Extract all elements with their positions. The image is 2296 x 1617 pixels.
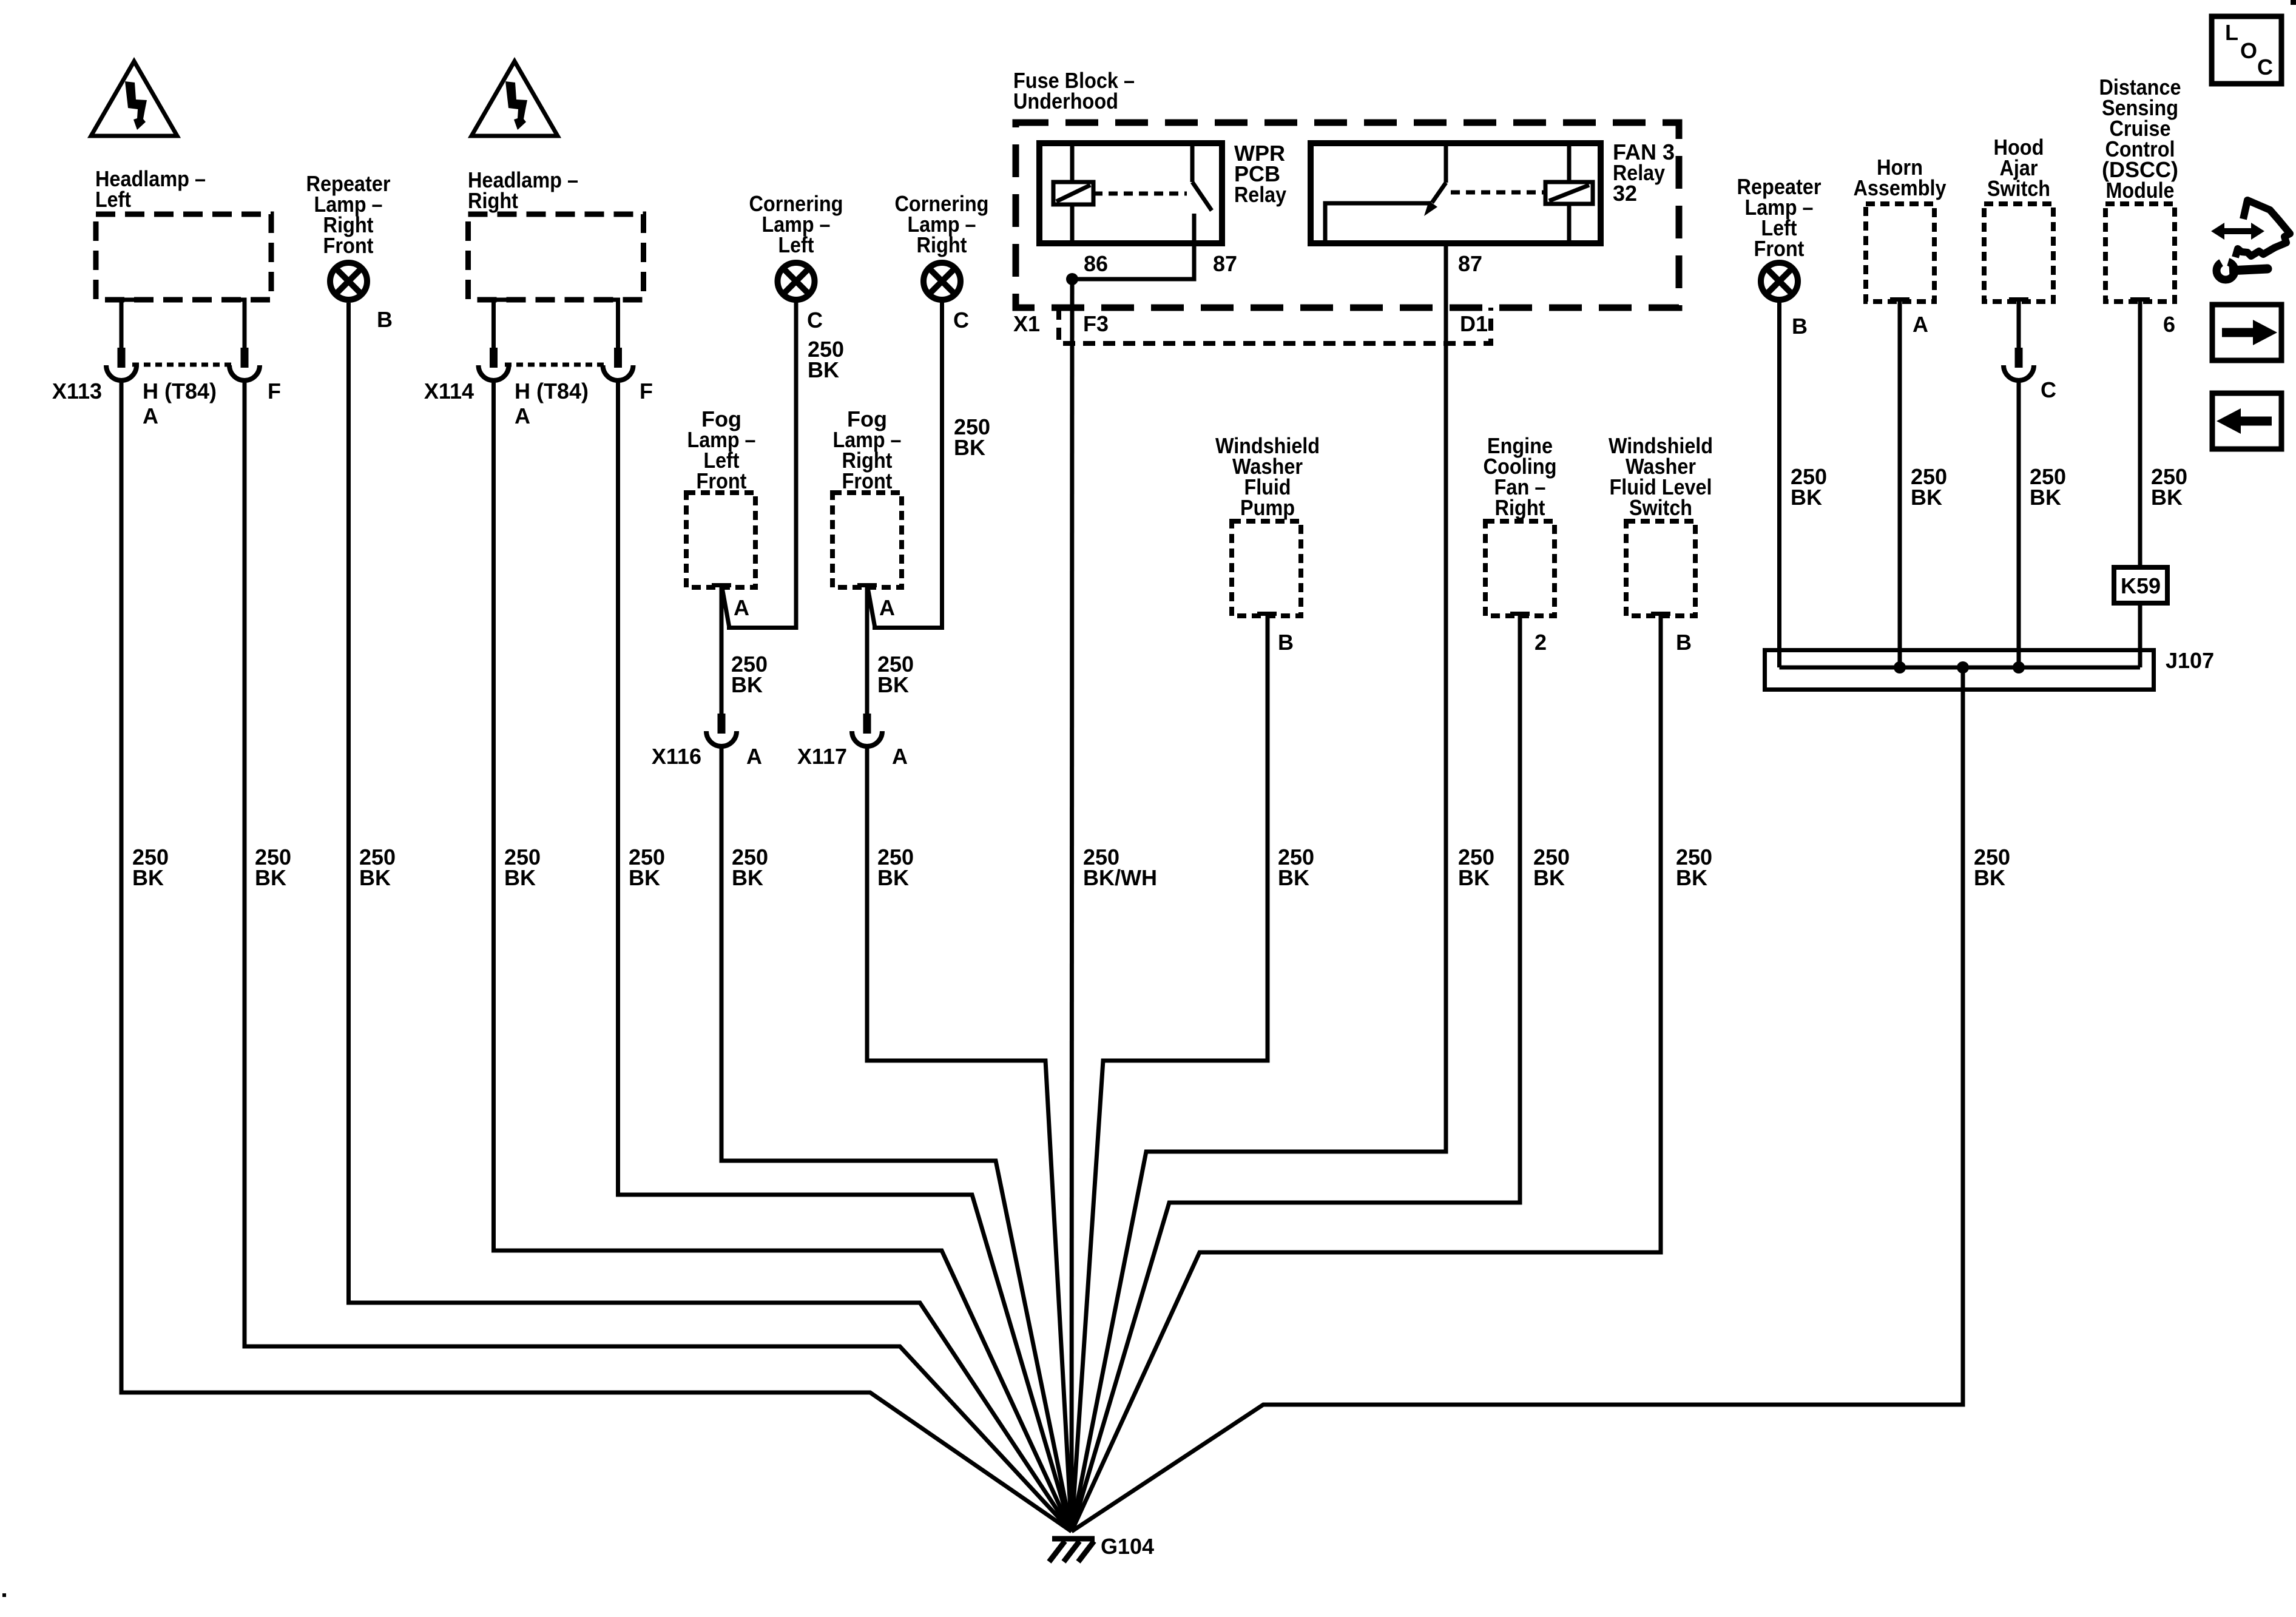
connector X114 terminal H [479, 348, 509, 380]
FAN3 coil lower wire [1567, 204, 1572, 243]
connector X113 terminal F [229, 348, 260, 380]
X113 in-line dotted link [132, 363, 234, 367]
junction dot (hood ajar on J107) [2013, 661, 2025, 673]
svg-text:Left: Left [778, 232, 814, 257]
svg-text:BK: BK [877, 672, 909, 697]
fog lamp left front label [687, 407, 756, 493]
ground G104 symbol [1049, 1539, 1095, 1562]
headlamp left pin H stub [121, 300, 141, 348]
value 250 BK at x=2527 [1533, 845, 1570, 890]
svg-text:87: 87 [1458, 251, 1482, 276]
junction dot 86/F3 [1066, 273, 1078, 285]
FAN3 switch blade [1432, 183, 1446, 203]
wire main F3 250 BK/WH to ground [1072, 279, 1072, 1531]
svg-text:H (T84): H (T84) [143, 379, 217, 403]
svg-text:Front: Front [323, 233, 374, 258]
hood ajar switch label [1987, 135, 2050, 201]
value 250 BK (cornering left) [808, 337, 844, 382]
wire repeater left B to J107 [1777, 300, 1781, 667]
wire cornering right C down and left to fog right [873, 300, 942, 628]
svg-text:BK: BK [877, 865, 909, 890]
WPR coil terminal wire [1070, 143, 1075, 182]
value 250 BK at x=2403 [1458, 845, 1494, 890]
svg-text:Underhood: Underhood [1013, 89, 1118, 113]
junction dot (J107 drop) [1957, 661, 1969, 673]
fog lamp right pin stub [857, 583, 877, 587]
value 250 BK at x=2106 [1278, 845, 1314, 890]
cornering lamp left label [749, 191, 843, 257]
FAN3 switch pivot wire [1444, 143, 1448, 183]
wire WPR 87 to F3 junction [1072, 243, 1194, 279]
wire repeater right front B ground wire [349, 303, 1072, 1531]
svg-text:D1: D1 [1460, 311, 1488, 336]
value 250 BK (horn) [1911, 464, 1947, 510]
svg-text:BK: BK [629, 865, 660, 890]
left arrow box [2212, 393, 2281, 449]
svg-text:BK: BK [1676, 865, 1707, 890]
wire fog right pin to X117 [865, 586, 869, 714]
WPR 87 terminal wire [1192, 214, 1197, 243]
svg-text:BK: BK [1791, 485, 1822, 510]
connector X116 [706, 714, 737, 746]
svg-text:86: 86 [1084, 251, 1108, 276]
fog lamp right front label [833, 407, 902, 493]
fog lamp right front box [832, 493, 902, 587]
warning triangle (headlamp left) [91, 61, 177, 136]
windshield washer fluid pump label [1215, 433, 1320, 520]
headlamp left pin F stub [225, 300, 245, 348]
FAN3 NC L-wire [1325, 203, 1431, 243]
fog lamp left pin stub [712, 583, 731, 587]
svg-text:C: C [2041, 377, 2056, 402]
connector X114 terminal F [603, 348, 633, 380]
connector X1 strip [1059, 308, 1491, 343]
svg-text:B: B [1676, 630, 1692, 655]
svg-text:X117: X117 [797, 744, 847, 769]
svg-text:C: C [953, 308, 969, 333]
wire washer pump B ground wire [1072, 616, 1268, 1531]
wire FAN3 87/D1 ground wire [1072, 243, 1446, 1531]
value 250 BK at x=420 [255, 845, 291, 890]
value 250 BK (hood ajar) [2030, 464, 2066, 510]
value 250 BK (repeater left) [1791, 464, 1827, 510]
svg-text:Front: Front [1754, 236, 1805, 261]
connector X113 terminal H [106, 348, 137, 380]
headlamp right box [468, 214, 644, 300]
FAN3 actuator dashed line [1451, 191, 1545, 195]
svg-text:Switch: Switch [1987, 176, 2050, 201]
value 250 BK (DSCC) [2151, 464, 2187, 510]
svg-text:A: A [746, 744, 762, 769]
wire X116 fog left ground wire [721, 748, 1072, 1531]
horn assembly label [1854, 155, 1947, 200]
connector (hood ajar C) [2004, 348, 2034, 380]
wire X117 fog right ground wire [867, 748, 1072, 1531]
wire K59 to J107 [2138, 603, 2142, 667]
value 250 BK at x=831 [504, 845, 541, 890]
page corner tick [2291, 0, 2296, 5]
windshield washer fluid pump box [1232, 521, 1301, 616]
relay WPR PCB box [1039, 143, 1222, 243]
svg-text:F: F [640, 379, 653, 403]
wire cornering left C down and left to fog left [727, 300, 796, 628]
wire hood ajar to connector [2017, 300, 2021, 348]
svg-text:Pump: Pump [1240, 495, 1295, 520]
wire X114 F ground wire [618, 382, 1072, 1531]
FAN3 coil [1545, 182, 1593, 204]
horn pin stub [1890, 297, 1909, 302]
svg-text:A: A [515, 403, 530, 428]
FAN 3 relay label [1613, 140, 1675, 206]
WPR switch pivot wire [1190, 143, 1195, 182]
value 250 BK at x=218 [132, 845, 169, 890]
svg-text:6: 6 [2163, 312, 2175, 337]
svg-text:BK: BK [731, 672, 763, 697]
J107 bus outline [1765, 650, 2154, 690]
value 250 BK (fog left) [731, 652, 768, 697]
value 250 BK at x=1446 [877, 845, 914, 890]
LOC legend box [2212, 16, 2281, 84]
svg-text:BK: BK [1911, 485, 1942, 510]
svg-text:X113: X113 [52, 379, 102, 403]
svg-text:Switch: Switch [1629, 495, 1692, 520]
svg-text:BK: BK [2151, 485, 2183, 510]
windshield washer fluid level switch label [1609, 433, 1713, 520]
headlamp left box [96, 214, 271, 300]
WPR actuator dashed line [1093, 192, 1187, 196]
svg-text:A: A [892, 744, 908, 769]
warning triangle (headlamp right) [471, 61, 558, 136]
WPR relay label [1234, 141, 1286, 207]
svg-text:H (T84): H (T84) [515, 379, 589, 403]
connector X117 [852, 714, 882, 746]
svg-text:Assembly: Assembly [1854, 175, 1947, 200]
svg-text:A: A [1913, 312, 1928, 337]
hood ajar switch box [1984, 204, 2053, 302]
svg-text:K59: K59 [2121, 573, 2161, 598]
wire X114 A ground wire [494, 382, 1072, 1531]
svg-text:C: C [807, 308, 823, 333]
svg-text:B: B [1792, 314, 1808, 339]
wire washer fluid level switch B ground wire [1072, 616, 1661, 1531]
svg-text:Front: Front [842, 468, 893, 493]
wire horn A to J107 [1898, 300, 1902, 667]
wire X113 F ground wire [245, 382, 1072, 1531]
svg-text:BK: BK [132, 865, 164, 890]
value 250 BK at x=1036 [629, 845, 665, 890]
engine fan pin stub [1510, 612, 1530, 616]
level switch pin stub [1651, 612, 1670, 616]
value 250 BK at x=592 [359, 845, 396, 890]
svg-text:L: L [2225, 20, 2238, 45]
fog lamp left front box [686, 493, 755, 587]
svg-text:BK: BK [1974, 865, 2005, 890]
washer fluid level switch box [1626, 521, 1695, 616]
svg-text:BK: BK [1278, 865, 1309, 890]
engine cooling fan right label [1484, 433, 1557, 520]
junction dot (horn on J107) [1894, 661, 1906, 673]
svg-text:O: O [2240, 38, 2257, 63]
svg-text:BK: BK [2030, 485, 2061, 510]
relay FAN 3 box [1311, 143, 1601, 243]
value 250 BK (cornering right) [954, 414, 990, 460]
wire X113 A ground wire [121, 382, 1072, 1531]
J107 bus wire [1780, 666, 2141, 670]
svg-text:Right: Right [468, 188, 518, 213]
washer pump pin stub [1257, 612, 1277, 616]
wire fog left pin branch to cornering left [722, 587, 729, 628]
svg-text:32: 32 [1613, 181, 1637, 206]
svg-text:BK: BK [1458, 865, 1490, 890]
svg-text:X114: X114 [424, 379, 474, 403]
svg-text:A: A [879, 595, 895, 620]
fuse block label [1013, 68, 1135, 113]
hood ajar pin stub [2009, 297, 2028, 302]
svg-text:B: B [1278, 630, 1294, 655]
cornering lamp right symbol [923, 263, 961, 300]
value 250 BK at x=3253 [1974, 845, 2010, 890]
svg-text:Left: Left [95, 187, 131, 212]
value 250 BK/WH at x=1785 [1083, 845, 1157, 890]
cornering lamp left symbol [778, 263, 815, 300]
WPR switch blade [1192, 182, 1212, 211]
DSCC module label [2099, 75, 2181, 203]
fuse block underhood dashed box [1016, 123, 1679, 308]
svg-text:A: A [143, 403, 158, 428]
headlamp left label [95, 166, 206, 212]
svg-text:B: B [377, 307, 393, 332]
horn assembly box [1866, 204, 1934, 302]
repeater lamp right front label [306, 171, 391, 258]
wire fog left pin to X116 [720, 586, 724, 714]
svg-text:Front: Front [697, 468, 747, 493]
wire engine cooling fan ground wire [1072, 616, 1520, 1531]
svg-text:BK/WH: BK/WH [1083, 865, 1157, 890]
repeater lamp right front symbol [330, 263, 367, 300]
repeater lamp left front label [1737, 174, 1822, 261]
DSCC pin stub [2130, 297, 2150, 302]
headlamp right pin F stub [598, 300, 618, 348]
svg-text:J107: J107 [2166, 648, 2214, 673]
engine cooling fan right box [1485, 521, 1555, 616]
wire hood ajar C to J107 [2017, 382, 2021, 667]
FAN3 coil terminal upper wire [1567, 143, 1572, 182]
svg-text:C: C [2257, 55, 2273, 79]
svg-text:F3: F3 [1083, 311, 1109, 336]
DSCC module box [2105, 204, 2175, 302]
svg-text:Right: Right [1495, 495, 1545, 520]
svg-text:BK: BK [954, 435, 985, 460]
svg-text:BK: BK [359, 865, 391, 890]
svg-text:G104: G104 [1101, 1534, 1154, 1559]
svg-text:BK: BK [808, 357, 839, 382]
svg-text:BK: BK [732, 865, 763, 890]
page bottom-left dot [2, 1593, 6, 1597]
svg-text:X1: X1 [1013, 311, 1040, 336]
svg-text:F: F [268, 379, 281, 403]
headlamp right pin H stub [494, 300, 514, 348]
wire DSCC 6 to K59 [2138, 300, 2142, 567]
wire fog right pin branch to cornering right [868, 587, 875, 628]
splice K59 box [2114, 567, 2167, 603]
svg-text:Right: Right [917, 232, 967, 257]
headlamp right label [468, 167, 578, 213]
svg-text:Relay: Relay [1234, 182, 1286, 207]
value 250 BK (fog right) [877, 652, 914, 697]
value 250 BK at x=1206 [732, 845, 768, 890]
right arrow box [2212, 305, 2281, 360]
svg-text:BK: BK [1533, 865, 1565, 890]
X114 in-line dotted link [505, 363, 607, 367]
svg-text:Module: Module [2106, 178, 2175, 203]
cornering lamp right label [895, 191, 989, 257]
FAN3 blade contact arrow [1424, 201, 1437, 216]
wire J107 drop to ground [1072, 667, 1963, 1531]
svg-text:BK: BK [255, 865, 286, 890]
repeater lamp left front symbol [1761, 263, 1798, 300]
value 250 BK at x=2762 [1676, 845, 1712, 890]
svg-text:2: 2 [1535, 630, 1547, 655]
svg-text:A: A [734, 595, 749, 620]
hand with wrench icon [2211, 200, 2290, 280]
WPR coil lower wire [1070, 204, 1075, 243]
svg-text:87: 87 [1213, 251, 1237, 276]
svg-text:X116: X116 [652, 744, 701, 769]
svg-text:BK: BK [504, 865, 536, 890]
WPR coil [1053, 182, 1093, 204]
